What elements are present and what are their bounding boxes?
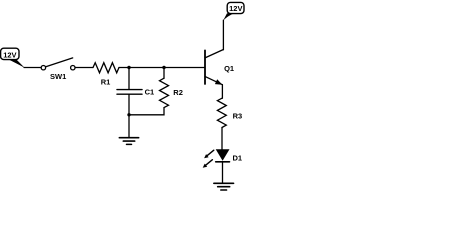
svg-text:Q1: Q1 [224, 64, 234, 73]
svg-text:D1: D1 [233, 153, 243, 162]
svg-text:R3: R3 [233, 111, 243, 120]
svg-text:12V: 12V [3, 51, 16, 60]
svg-text:C1: C1 [145, 88, 155, 97]
svg-text:12V: 12V [229, 4, 242, 13]
svg-text:R1: R1 [101, 78, 111, 87]
svg-text:R2: R2 [173, 88, 183, 97]
svg-text:SW1: SW1 [50, 72, 66, 81]
